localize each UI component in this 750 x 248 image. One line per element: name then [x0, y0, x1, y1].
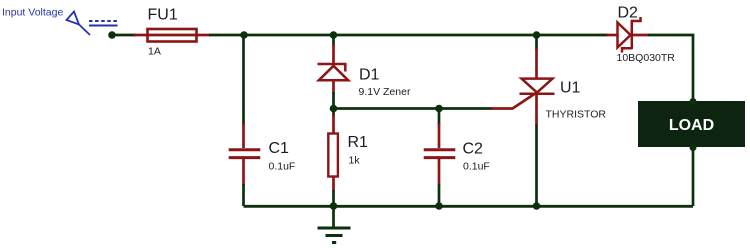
capacitor C1 column wire upper	[242, 35, 245, 125]
wire D2 anode pin	[607, 34, 619, 37]
resistor R1 leads	[332, 109, 335, 117]
wire D2 cathode pin	[632, 34, 649, 37]
node LOAD bottom	[690, 144, 697, 151]
ground	[318, 206, 351, 243]
thyristor U1 symbol	[520, 79, 555, 94]
svg-text:10BQ030TR: 10BQ030TR	[617, 52, 676, 64]
node gate / C2	[435, 105, 443, 113]
wire top rail left	[112, 34, 136, 37]
svg-text:0.1uF: 0.1uF	[269, 161, 296, 173]
node LOAD top	[690, 98, 697, 105]
zener D1 symbol	[318, 64, 349, 80]
node top rail / D1	[330, 31, 338, 39]
svg-text:0.1uF: 0.1uF	[463, 161, 490, 173]
svg-text:Input Voltage: Input Voltage	[2, 7, 63, 19]
node gate / R1	[330, 105, 338, 113]
wire fuse left pin	[134, 34, 148, 37]
zener D1 top lead	[332, 35, 335, 46]
wire bottom rail	[244, 205, 694, 208]
svg-text:1A: 1A	[148, 46, 161, 58]
capacitor C2 plates	[424, 150, 456, 158]
svg-text:C2: C2	[463, 141, 484, 158]
fuse FU1	[147, 29, 197, 42]
svg-text:D2: D2	[618, 5, 639, 22]
capacitor C2 lower wire	[438, 184, 441, 206]
node rail / U1 bottom	[533, 202, 541, 210]
wire fuse right pin	[196, 34, 210, 37]
probe generator symbol	[67, 12, 118, 36]
svg-text:R1: R1	[348, 134, 369, 151]
svg-text:THYRISTOR: THYRISTOR	[546, 109, 607, 121]
wire gate line	[334, 107, 493, 110]
LOAD block	[638, 101, 745, 147]
capacitor C2 pins	[438, 124, 441, 149]
svg-text:LOAD: LOAD	[669, 117, 714, 134]
wire LOAD bottom	[692, 146, 695, 206]
svg-text:C1: C1	[269, 140, 290, 157]
svg-text:FU1: FU1	[148, 7, 178, 24]
thyristor U1 anode wire	[535, 35, 538, 50]
node input terminal	[108, 31, 116, 39]
svg-text:9.1V Zener: 9.1V Zener	[359, 86, 411, 98]
capacitor C1 plates	[229, 150, 261, 158]
zener D1 bottom lead	[332, 80, 335, 93]
diode D2 (schottky)	[618, 17, 641, 53]
svg-text:U1: U1	[560, 80, 581, 97]
capacitor C1 column wire lower	[242, 184, 245, 206]
node rail / ground	[330, 202, 338, 210]
thyristor U1 cathode wire	[535, 94, 538, 126]
svg-text:1k: 1k	[349, 155, 361, 167]
svg-text:D1: D1	[359, 67, 380, 84]
node top rail / U1	[533, 31, 541, 39]
capacitor C2 upper wire	[438, 109, 441, 126]
node top rail / C1	[240, 31, 248, 39]
capacitor C1 pins	[242, 124, 245, 149]
node rail / C2 bottom	[435, 202, 443, 210]
wire gate red segment	[491, 93, 536, 108]
wire top rail	[209, 34, 608, 37]
wire top rail to right corner	[648, 35, 693, 102]
resistor R1 body	[328, 134, 338, 177]
